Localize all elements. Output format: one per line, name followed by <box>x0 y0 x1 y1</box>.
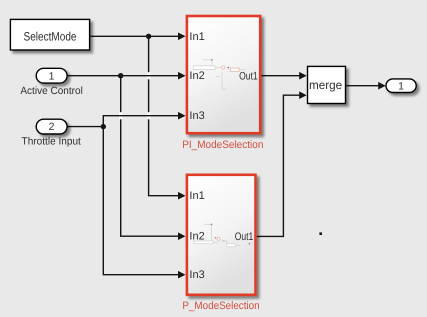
wire: Inport1 to PI_ModeSelection In2 <box>67 72 185 80</box>
svg-text:In3: In3 <box>189 269 204 281</box>
wire: branch from junction J1 down to P_ModeSelection In1 <box>149 36 179 195</box>
svg-text:1: 1 <box>398 80 404 92</box>
svg-text:In1: In1 <box>189 31 204 43</box>
inport 2 (Throttle Input) <box>36 119 67 134</box>
inport 1 (Active Control) <box>36 68 67 83</box>
svg-text:In2: In2 <box>189 70 204 82</box>
P_ModeSelection content preview sketch <box>194 224 240 247</box>
wire: P_ModeSelection Out1 up to Merge input 2 <box>257 91 307 236</box>
svg-text:Active Control: Active Control <box>20 85 83 97</box>
outport 1 <box>386 79 416 93</box>
svg-text:1: 1 <box>49 70 55 82</box>
subsystem P_ModeSelection <box>187 175 256 295</box>
svg-text:P_ModeSelection: P_ModeSelection <box>182 300 259 312</box>
junction J1 on SelectMode wire <box>146 34 151 39</box>
subsystem PI_ModeSelection <box>187 16 260 133</box>
svg-text:In2: In2 <box>189 231 204 243</box>
junction J2 on Inport1 wire <box>118 73 123 78</box>
svg-text:In1: In1 <box>189 190 204 202</box>
svg-text:2: 2 <box>49 121 55 133</box>
arrowhead into P_ModeSelection In3 <box>178 271 186 279</box>
wire: SelectMode output to PI_ModeSelection In1 <box>90 33 185 41</box>
wire: branch from junction J3 down to P_ModeSelection In3 <box>103 127 178 275</box>
wire: Inport2 to junction J3 <box>67 126 103 128</box>
junction J3 on Inport2 wire <box>101 124 106 129</box>
block SelectMode (constant) <box>10 19 89 50</box>
svg-text:Throttle Input: Throttle Input <box>22 135 81 147</box>
wire: PI_ModeSelection Out1 to Merge input 1 <box>262 72 307 80</box>
svg-text:Out1: Out1 <box>239 71 258 83</box>
arrowhead into P_ModeSelection In1 <box>178 192 186 200</box>
wire: branch from junction J3 up to PI_ModeSelection In3 <box>103 112 185 127</box>
svg-text:merge: merge <box>309 78 343 92</box>
svg-text:In3: In3 <box>189 110 204 122</box>
PI_ModeSelection content preview sketch <box>193 60 245 89</box>
svg-text:Out1: Out1 <box>235 231 254 243</box>
wire: Merge output to Outport 1 <box>346 82 386 90</box>
block Merge <box>308 66 346 103</box>
wire: branch from junction J2 down to P_ModeSelection In2 <box>121 76 179 237</box>
svg-text:PI_ModeSelection: PI_ModeSelection <box>182 139 263 151</box>
arrowhead into P_ModeSelection In2 <box>178 232 186 240</box>
svg-text:SelectMode: SelectMode <box>24 30 77 44</box>
annotation dot <box>319 232 322 235</box>
